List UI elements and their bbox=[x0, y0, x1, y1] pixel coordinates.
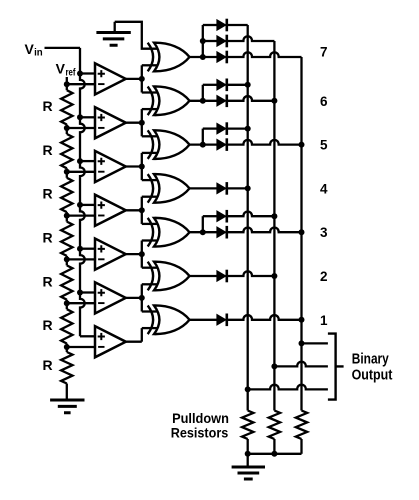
node diode feed junction row3 at 0.0 bbox=[200, 229, 206, 235]
svg-text:ref: ref bbox=[66, 66, 76, 78]
wire U5 output branch bbox=[141, 241, 143, 268]
node diode feed junction row7 at -16.0 bbox=[200, 38, 206, 44]
node bus C junction row3 bbox=[299, 229, 305, 235]
node U4 output junction bbox=[139, 207, 145, 213]
wire U2 output bbox=[126, 122, 142, 124]
wire D3 cathode to bus C bbox=[227, 52, 302, 57]
op-amp comparator U7 bbox=[95, 326, 126, 357]
wire diode anode lead row7 level -16.0 bbox=[203, 40, 217, 42]
wire D9 cathode to bus B bbox=[227, 211, 275, 216]
svg-text:1: 1 bbox=[320, 313, 328, 328]
diode D4 bbox=[217, 79, 227, 92]
wire Vref stub bbox=[66, 77, 68, 84]
svg-text:7: 7 bbox=[320, 45, 328, 60]
op-amp comparator U4 bbox=[95, 195, 126, 226]
node ladder tap 6 bbox=[64, 300, 70, 306]
wire diode feed row6 bbox=[202, 85, 204, 101]
svg-text:R: R bbox=[43, 357, 53, 373]
wire XOR row6 output bbox=[190, 100, 218, 102]
wire comparator U2 + input bbox=[80, 116, 95, 118]
node ladder tap 2 bbox=[64, 125, 70, 131]
wire XOR row3 lower input bbox=[142, 239, 157, 241]
node bus C to bit0 bbox=[299, 340, 305, 346]
node Vin bus junction 4 bbox=[77, 202, 83, 208]
diode D6 bbox=[217, 122, 227, 135]
node bus B junction row6 bbox=[271, 98, 277, 104]
resistor pulldown RP2 bbox=[269, 411, 280, 440]
wire U4 output bbox=[126, 209, 142, 211]
svg-text:in: in bbox=[34, 47, 43, 59]
diode D11 bbox=[217, 270, 227, 283]
wire comparator U6 - input bbox=[67, 302, 95, 304]
wire comparator U6 + input bbox=[80, 291, 95, 293]
node U2 output junction bbox=[139, 120, 145, 126]
resistor R (ladder 3) bbox=[66, 172, 68, 178]
wire Vin bus vertical bbox=[80, 48, 85, 336]
diode D7 bbox=[217, 138, 227, 151]
wire comparator U3 + input bbox=[80, 160, 95, 162]
wire D10 cathode to bus C bbox=[227, 227, 302, 232]
node Vin bus junction 6 bbox=[77, 290, 83, 296]
resistor pulldown RP3 bbox=[296, 411, 307, 440]
node pulldown junction A bbox=[245, 451, 251, 457]
node diode feed junction row5 at 0.0 bbox=[200, 142, 206, 148]
svg-text:V: V bbox=[25, 41, 35, 57]
wire XOR row3 output bbox=[190, 231, 218, 233]
wire pulldown common bbox=[248, 453, 302, 455]
node ladder tap 4 bbox=[64, 213, 70, 219]
svg-text:2: 2 bbox=[320, 269, 328, 284]
node ladder tap 7 bbox=[64, 344, 70, 350]
bracket binary output bbox=[328, 334, 344, 400]
wire XOR row1 upper input bbox=[142, 310, 157, 312]
wire XOR row2 upper input bbox=[142, 267, 157, 269]
svg-text:V: V bbox=[56, 61, 66, 77]
diode D3 bbox=[217, 51, 227, 64]
wire comparator U7 - input bbox=[67, 346, 95, 348]
svg-text:R: R bbox=[43, 98, 53, 114]
wire D1 cathode to bus A bbox=[227, 24, 248, 26]
wire diode anode lead row7 level -32.0 bbox=[203, 24, 217, 26]
wire XOR row6 upper input bbox=[142, 91, 157, 93]
xor-gate G2 (row 6) bbox=[148, 86, 190, 115]
xor-gate G7 (row 1) bbox=[148, 305, 190, 334]
wire bus A vertical bbox=[247, 25, 249, 411]
svg-text:Resistors: Resistors bbox=[171, 425, 229, 441]
wire diode anode lead row5 level -16.0 bbox=[203, 127, 217, 129]
svg-text:4: 4 bbox=[320, 181, 328, 196]
svg-text:R: R bbox=[43, 142, 53, 158]
node bus C junction row1 bbox=[299, 317, 305, 323]
wire XOR row7 output bbox=[190, 56, 218, 58]
wire XOR row1 lower input bbox=[142, 327, 157, 329]
node bus A to bit2 bbox=[245, 386, 251, 392]
node diode feed junction row7 at 0.0 bbox=[200, 54, 206, 60]
node U1 output junction bbox=[139, 76, 145, 82]
wire ground to XOR row7 upper input bbox=[115, 22, 157, 49]
wire Vin input bbox=[45, 47, 81, 49]
diode D9 bbox=[217, 210, 227, 223]
wire XOR row6 lower input bbox=[142, 108, 157, 110]
svg-text:3: 3 bbox=[320, 225, 328, 240]
wire comparator U3 - input bbox=[67, 171, 95, 173]
svg-text:R: R bbox=[43, 273, 53, 289]
wire U4 output branch bbox=[141, 197, 143, 224]
xor-gate G1 (row 7) bbox=[148, 43, 190, 72]
xor-gate G5 (row 3) bbox=[148, 218, 190, 247]
node ladder tap 5 bbox=[64, 256, 70, 262]
wire diode feed row7 bbox=[202, 25, 204, 57]
node ladder tap 1 bbox=[64, 81, 70, 87]
wire XOR row2 lower input bbox=[142, 283, 157, 285]
resistor R (ladder 2) bbox=[66, 128, 68, 134]
diode D10 bbox=[217, 226, 227, 239]
wire D11 cathode to bus B bbox=[227, 271, 275, 276]
node diode feed junction row6 at 0.0 bbox=[200, 98, 206, 104]
diode D1 bbox=[217, 19, 227, 32]
node Vin bus junction 3 bbox=[77, 158, 83, 164]
node ladder tap 3 bbox=[64, 169, 70, 175]
wire D8 cathode to bus A bbox=[227, 187, 248, 189]
wire ladder ground stub bbox=[66, 391, 68, 400]
node bus A junction row5 bbox=[245, 126, 251, 132]
wire XOR row2 output bbox=[190, 275, 218, 277]
wire U6 output bbox=[126, 297, 142, 299]
wire comparator U5 - input bbox=[67, 258, 95, 260]
node U5 output junction bbox=[139, 251, 145, 257]
wire D12 cathode to bus C bbox=[227, 315, 302, 320]
wire bus B vertical bbox=[273, 41, 275, 411]
ground top bbox=[96, 33, 130, 46]
wire U6 output branch bbox=[141, 284, 143, 311]
wire top ground stub bbox=[114, 22, 116, 33]
op-amp comparator U6 bbox=[95, 282, 126, 313]
wire binary output bit1 (from bus B) bbox=[274, 362, 328, 367]
wire XOR row5 output bbox=[190, 143, 218, 145]
wire U7 output branch bbox=[141, 328, 143, 342]
wire XOR row7 lower input bbox=[142, 64, 157, 66]
wire U3 output branch bbox=[141, 153, 143, 180]
wire diode anode lead row6 level -16.0 bbox=[203, 84, 217, 86]
node bus C junction row5 bbox=[299, 142, 305, 148]
op-amp comparator U3 bbox=[95, 151, 126, 182]
wire comparator U5 + input bbox=[80, 248, 95, 250]
resistor R (ladder 4) bbox=[66, 216, 68, 222]
wire comparator U7 + input bbox=[80, 335, 95, 337]
xor-gate G3 (row 5) bbox=[148, 130, 190, 159]
resistor pulldown RP1 bbox=[242, 411, 253, 440]
wire binary output bit2 (from bus A) bbox=[248, 385, 328, 390]
node Vin bus junction 2 bbox=[77, 114, 83, 120]
node bus B junction row2 bbox=[271, 273, 277, 279]
wire binary output bit0 (from bus C) bbox=[302, 342, 328, 344]
wire comparator U1 + input bbox=[80, 72, 95, 74]
xor-gate G6 (row 2) bbox=[148, 262, 190, 291]
svg-text:Output: Output bbox=[352, 368, 393, 384]
svg-text:R: R bbox=[43, 186, 53, 202]
svg-text:5: 5 bbox=[320, 138, 328, 153]
diode D2 bbox=[217, 35, 227, 48]
node Vin bus junction 5 bbox=[77, 246, 83, 252]
node pulldown junction B bbox=[271, 451, 277, 457]
wire U5 output bbox=[126, 253, 142, 255]
wire U1 output bbox=[126, 78, 142, 80]
wire D4 cathode to bus A bbox=[227, 84, 248, 86]
wire diode feed row3 bbox=[202, 216, 204, 232]
svg-text:Binary: Binary bbox=[352, 352, 389, 368]
wire D5 cathode to bus B bbox=[227, 96, 275, 101]
node U6 output junction bbox=[139, 295, 145, 301]
resistor R (ladder 7) bbox=[66, 347, 68, 352]
node bus B junction row3 bbox=[271, 213, 277, 219]
ground ladder bbox=[50, 400, 84, 413]
wire comparator U1 - input bbox=[67, 83, 95, 85]
svg-text:R: R bbox=[43, 317, 53, 333]
wire diode feed row5 bbox=[202, 129, 204, 145]
ground output bbox=[232, 467, 265, 479]
resistor R (ladder 1) bbox=[66, 84, 68, 90]
wire XOR row4 upper input bbox=[142, 179, 157, 181]
wire D6 cathode to bus A bbox=[227, 127, 248, 129]
wire comparator U4 - input bbox=[67, 214, 95, 216]
wire output ground stub bbox=[247, 454, 249, 467]
node bus A junction row4 bbox=[245, 185, 251, 191]
node U3 output junction bbox=[139, 164, 145, 170]
node bus A junction row6 bbox=[245, 82, 251, 88]
wire XOR row4 output bbox=[190, 187, 218, 189]
wire U3 output bbox=[126, 165, 142, 167]
wire XOR row5 upper input bbox=[142, 135, 157, 137]
svg-text:6: 6 bbox=[320, 94, 328, 109]
wire XOR row4 lower input bbox=[142, 196, 157, 198]
wire XOR row5 lower input bbox=[142, 152, 157, 154]
node Vin bus junction 1 bbox=[77, 71, 83, 77]
wire bus C vertical bbox=[300, 57, 302, 411]
wire comparator U2 - input bbox=[67, 127, 95, 129]
wire U7 output bbox=[126, 341, 142, 343]
resistor R (ladder 5) bbox=[66, 259, 68, 265]
op-amp comparator U1 bbox=[95, 63, 126, 94]
wire XOR row1 output bbox=[190, 319, 218, 321]
wire comparator U4 + input bbox=[80, 204, 95, 206]
xor-gate G4 (row 4) bbox=[148, 174, 190, 203]
op-amp comparator U5 bbox=[95, 239, 126, 270]
wire XOR row3 upper input bbox=[142, 223, 157, 225]
resistor R (ladder 6) bbox=[66, 303, 68, 309]
wire D2 cathode to bus B bbox=[227, 36, 275, 41]
wire U1 output branch bbox=[141, 65, 143, 92]
svg-text:Pulldown: Pulldown bbox=[172, 410, 229, 426]
diode D12 bbox=[217, 314, 227, 327]
diode D8 bbox=[217, 182, 227, 195]
wire U2 output branch bbox=[141, 109, 143, 136]
svg-text:R: R bbox=[43, 230, 53, 246]
op-amp comparator U2 bbox=[95, 107, 126, 138]
diode D5 bbox=[217, 95, 227, 108]
wire D7 cathode to bus C bbox=[227, 140, 302, 145]
node bus B to bit1 bbox=[271, 363, 277, 369]
wire diode anode lead row3 level -16.0 bbox=[203, 215, 217, 217]
